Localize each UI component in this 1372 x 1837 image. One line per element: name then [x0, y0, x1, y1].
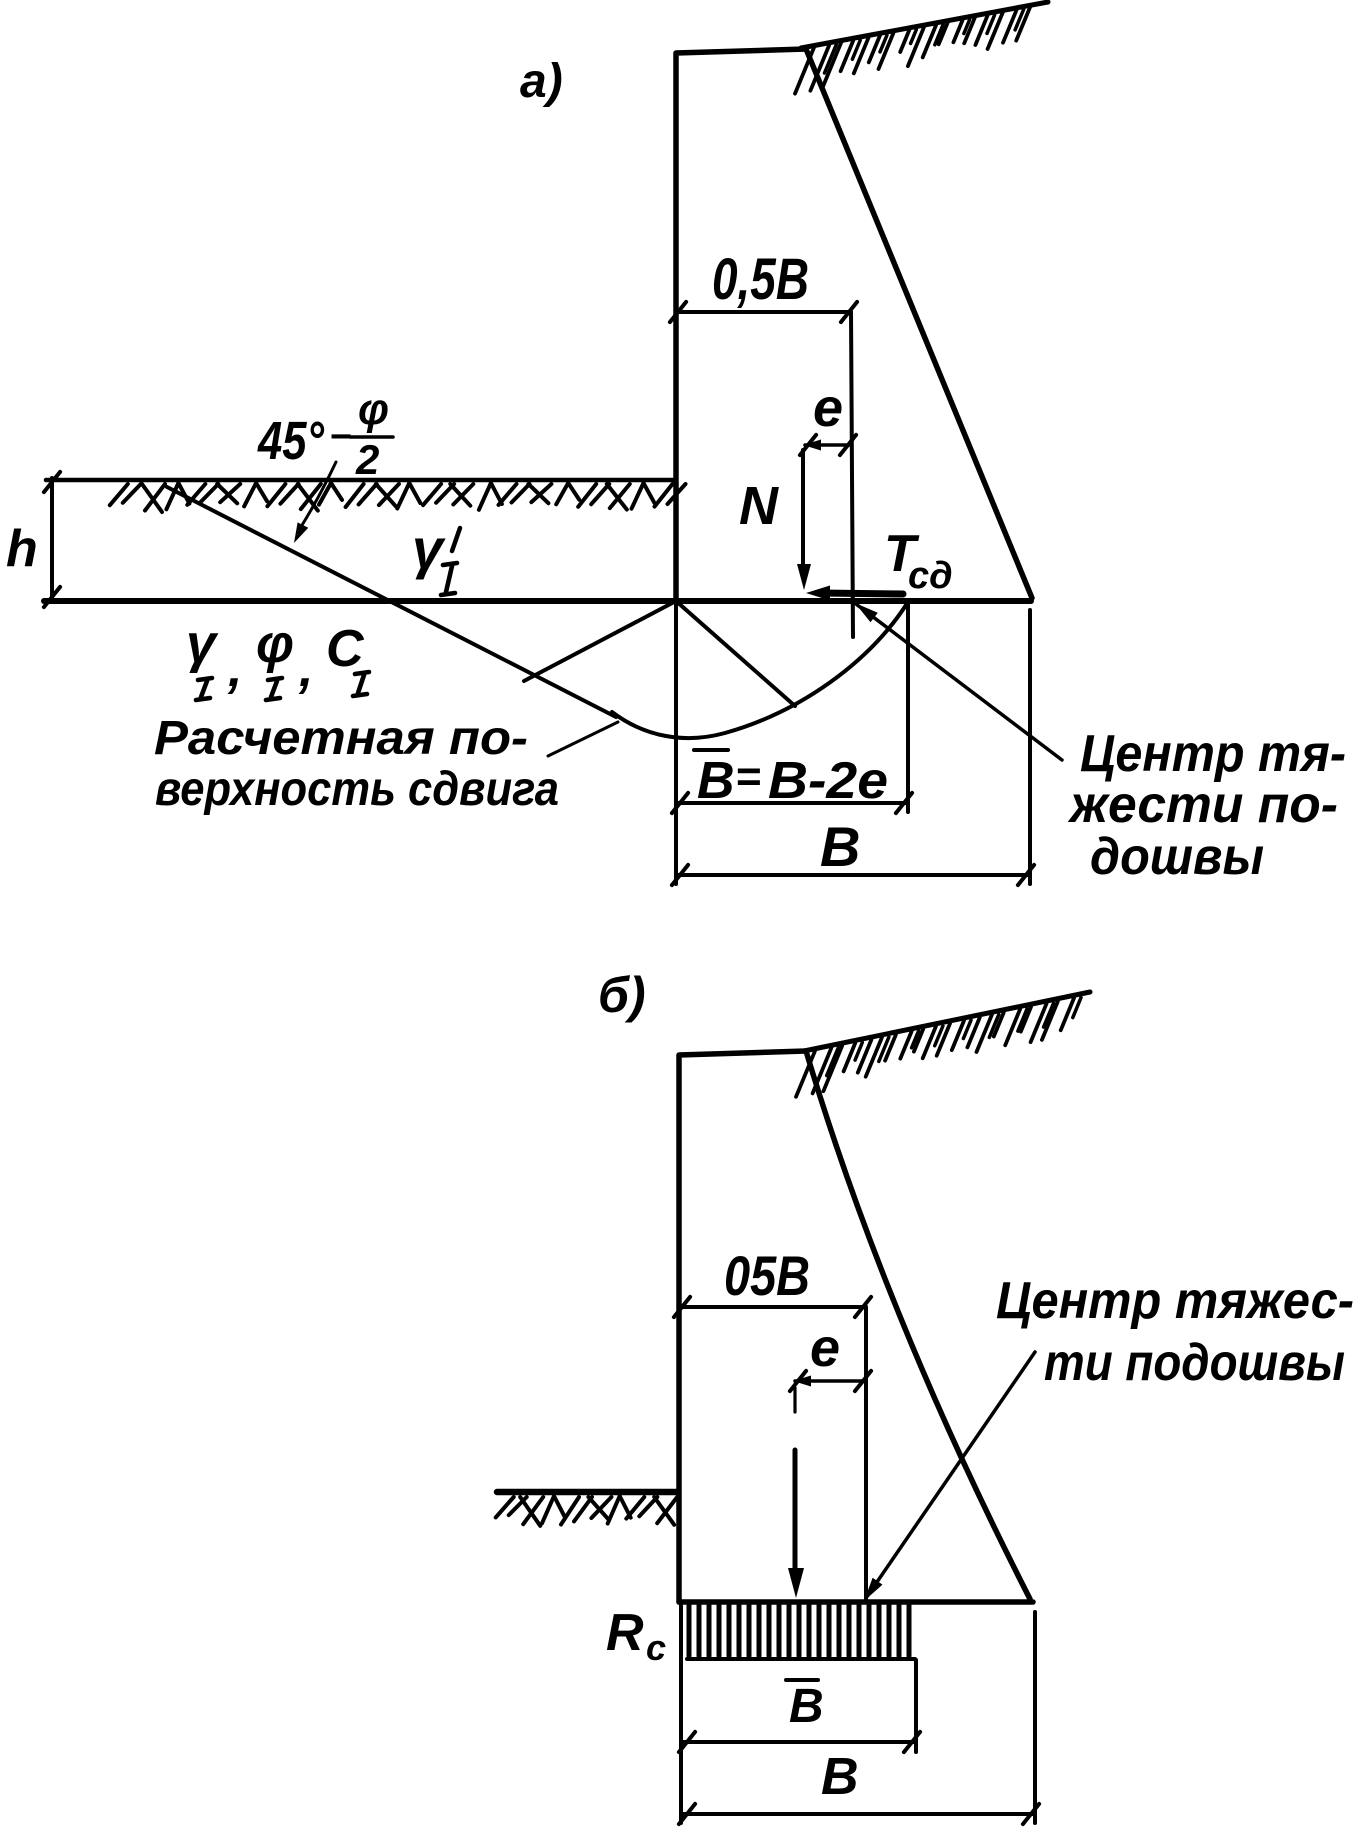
Rc bearing pressure diagram (fig b) — [687, 1605, 915, 1659]
svg-text:φ: φ — [256, 614, 294, 674]
wall base line (fig b) — [679, 1599, 1033, 1605]
svg-text:ти подошвы: ти подошвы — [1044, 1334, 1345, 1392]
svg-text:В-2е: В-2е — [768, 752, 888, 810]
shear wedge right line (fig a) — [676, 601, 795, 706]
label Tsentr tyazhesti podoshvy (fig a) — [1067, 725, 1346, 886]
leader to shear-surface label — [548, 722, 618, 756]
retaining wall outline (fig a) — [676, 49, 1032, 601]
svg-text:C: C — [326, 620, 365, 678]
svg-text:В: В — [789, 1680, 824, 1733]
svg-text:,: , — [298, 640, 313, 698]
ground hatching left of wall (fig b) — [496, 1496, 678, 1526]
dimension e (fig a) — [800, 435, 856, 455]
svg-text:Центр тяжес-: Центр тяжес- — [996, 1272, 1354, 1330]
svg-text:В: В — [697, 752, 735, 810]
backfill slope surface line (fig a) — [801, 2, 1048, 48]
label gamma'I (backfill unit weight) — [412, 517, 460, 595]
svg-text:е: е — [810, 1318, 840, 1378]
svg-text:сд: сд — [908, 555, 953, 597]
extension line at B right end (fig b) — [1033, 1612, 1037, 1823]
dimension B-bar = B-2e (fig a) — [672, 793, 912, 813]
dimension B (fig b) — [679, 1804, 1039, 1824]
leader to centre-of-gravity label (fig a) — [855, 603, 1062, 760]
shear surface curve (fig a) — [612, 602, 908, 738]
ground surface line left of wall (fig a) — [46, 478, 676, 483]
dimension B (fig a) — [672, 865, 1034, 885]
svg-text:с: с — [646, 1627, 666, 1668]
leader to centre-of-gravity label (fig b) — [864, 1352, 1035, 1601]
svg-text:дошвы: дошвы — [1090, 828, 1264, 886]
foundation base line (fig a) — [44, 598, 1031, 604]
svg-text:0,5В: 0,5В — [712, 247, 809, 312]
wall edge extension below base (fig a) — [674, 601, 678, 884]
svg-text:Расчетная по-: Расчетная по- — [154, 712, 528, 765]
svg-text:R: R — [606, 1604, 644, 1662]
extension line at B-bar right end (fig a) — [906, 602, 910, 812]
footing centre axis line (fig a) — [851, 312, 853, 637]
svg-text:а): а) — [520, 55, 563, 108]
dimension B-bar (fig b) — [679, 1732, 920, 1752]
svg-text:жести по-: жести по- — [1067, 776, 1338, 834]
label B-bar (fig b) — [786, 1680, 824, 1733]
svg-text:N: N — [739, 476, 779, 536]
label 45deg - phi/2 — [257, 385, 393, 483]
svg-text:В: В — [821, 1748, 859, 1806]
force T_sd arrow (shear force) — [806, 586, 903, 601]
angle leader arrow — [294, 462, 336, 543]
svg-text:б): б) — [598, 967, 646, 1023]
shear wedge left line (fig a) — [524, 601, 676, 681]
slope hatching (fig b) — [796, 998, 1081, 1097]
slope hatching (fig a) — [795, 7, 1030, 93]
backfill slope surface line (fig b) — [804, 992, 1090, 1051]
retaining wall outline (fig b) — [679, 1051, 1030, 1602]
extension line at B right end (fig a) — [1028, 610, 1032, 884]
svg-text:h: h — [6, 520, 38, 578]
dimension 05B (fig b) — [674, 1297, 871, 1317]
shear plane diagonal 45-phi/2 (fig a) — [167, 487, 616, 717]
resultant force arrow (fig b) — [788, 1388, 804, 1598]
label Rc — [606, 1604, 666, 1668]
extension line at B-bar right end (fig b) — [914, 1660, 918, 1752]
dimension h — [44, 472, 60, 607]
footing centre axis line (fig b) — [864, 1307, 868, 1602]
svg-text:05В: 05В — [724, 1244, 810, 1307]
label B-bar = B-2e — [694, 750, 888, 810]
svg-text:В: В — [820, 815, 860, 878]
dimension e (fig b) — [790, 1371, 871, 1391]
svg-text:,: , — [227, 640, 242, 698]
dimension 0,5B (fig a) — [670, 302, 857, 322]
svg-text:γ: γ — [412, 517, 446, 580]
svg-text:Центр тя-: Центр тя- — [1080, 725, 1346, 783]
svg-text:2: 2 — [355, 436, 379, 483]
svg-text:е: е — [813, 378, 843, 438]
label gammaI phiI cI (soil params) — [186, 614, 369, 700]
svg-text:верхность сдвига: верхность сдвига — [155, 763, 559, 816]
label Tsentr tyazhesti podoshvy (fig b) — [996, 1272, 1354, 1392]
svg-text:=: = — [736, 752, 762, 801]
svg-text:φ: φ — [358, 385, 389, 434]
wall edge extension below base (fig b) — [679, 1602, 683, 1823]
label Raschetnaya poverkhnost sdviga — [154, 712, 559, 816]
svg-text:45°: 45° — [257, 411, 324, 471]
label T_sd — [884, 525, 953, 597]
force N arrow — [797, 450, 811, 590]
svg-text:γ: γ — [186, 614, 219, 674]
ground surface line left of wall (fig b) — [497, 1489, 678, 1496]
ground hatching left of wall (fig a) — [110, 483, 686, 512]
